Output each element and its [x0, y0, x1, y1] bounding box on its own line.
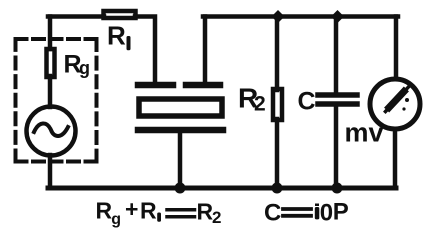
svg-text:g: g: [111, 211, 121, 228]
resistor R2 wire top: [275, 17, 280, 91]
wire from crystal bottom plate down to bottom rail: [178, 131, 183, 188]
formula value 10P : digit 1: [315, 204, 320, 220]
junction node C-bottom rail: [332, 183, 343, 194]
dashed box left edge: [14, 39, 18, 162]
svg-text:0: 0: [320, 199, 333, 226]
svg-text:C: C: [298, 88, 316, 116]
svg-text:R: R: [107, 21, 126, 51]
crystal XT right top electrode plate: [186, 82, 220, 89]
wire top-left horizontal to R1: [48, 14, 104, 19]
formula value 10P : letter P: [333, 198, 349, 225]
dashed box bottom edge: [16, 160, 97, 164]
svg-text:2: 2: [212, 208, 221, 227]
crystal XT bottom plate: [138, 127, 223, 134]
formula 2 equals sign (double bar): [283, 209, 311, 216]
capacitor C top plate: [318, 92, 357, 98]
meter mV body: [370, 79, 420, 129]
sine wave inside source: [34, 123, 68, 136]
wire source bottom to rail: [48, 155, 53, 188]
label Rg: [64, 51, 91, 79]
svg-text:2: 2: [254, 93, 266, 116]
meter scale dot 2: [402, 107, 405, 110]
formula plus sign: [125, 196, 138, 222]
meter scale dot 1: [405, 98, 409, 102]
formula term R1: [140, 198, 161, 224]
svg-text:g: g: [79, 58, 90, 78]
wire meter bottom to rail: [393, 129, 398, 188]
formula equals sign (double bar): [167, 210, 195, 217]
junction node R2-bottom rail: [272, 183, 283, 194]
formula C = 10P : term C: [264, 199, 281, 226]
svg-text:R: R: [96, 198, 113, 224]
junction node crystal-bottom rail: [175, 183, 186, 194]
generator source G circle: [27, 107, 76, 156]
formula Rg + R1 = R2 : term Rg: [96, 198, 122, 229]
resistor R2: [273, 89, 282, 120]
crystal XT body: [139, 99, 222, 116]
wire from R1 to crystal top-left: [135, 17, 155, 84]
label mV: [345, 118, 384, 148]
bottom rail wire: [48, 186, 396, 191]
wire top rail down to meter: [394, 17, 399, 79]
label C: [298, 88, 316, 116]
svg-text:R: R: [140, 198, 157, 224]
resistor R2 wire bottom: [275, 119, 280, 188]
top rail wire: [203, 14, 398, 19]
resistor Rg: [47, 49, 55, 77]
svg-text:mv: mv: [345, 118, 384, 148]
wire from crystal right electrode up to top rail: [203, 17, 208, 83]
svg-text:C: C: [264, 199, 281, 226]
svg-text:+: +: [125, 196, 138, 222]
svg-text:P: P: [333, 198, 349, 225]
resistor R1: [104, 11, 136, 18]
label R2: [238, 83, 266, 116]
crystal XT left top electrode plate: [138, 82, 173, 89]
formula term R2: [197, 199, 222, 228]
junction node at C top: [331, 10, 344, 23]
dashed box around source and Rg: top edge: [16, 37, 97, 41]
capacitor C wire bottom: [334, 106, 339, 188]
wire top-left vertical from Rg up to top: [48, 17, 53, 50]
label R1: [107, 21, 131, 51]
svg-text:R: R: [197, 199, 214, 225]
capacitor C wire top: [334, 17, 339, 94]
meter needle: [386, 88, 409, 112]
capacitor C bottom plate: [318, 101, 357, 107]
junction node at R2 top: [272, 10, 285, 23]
formula value 10P : digit 0: [320, 199, 333, 226]
dashed box right edge: [95, 39, 99, 162]
wire Rg bottom to source top: [48, 76, 53, 107]
